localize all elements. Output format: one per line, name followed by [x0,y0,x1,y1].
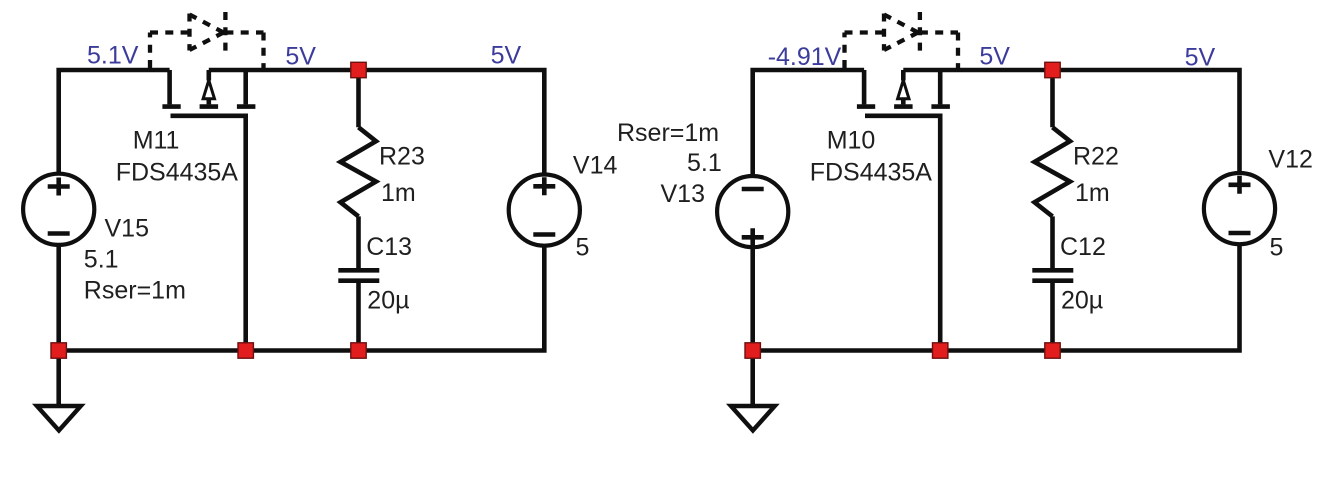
capacitor C12 [1032,270,1073,350]
svg-text:5V: 5V [979,42,1010,70]
svg-text:20µ: 20µ [1061,287,1103,315]
svg-text:R22: R22 [1073,143,1119,171]
body diode of M10 (dashed) [845,12,959,68]
wire top-left from V15 to M11 source [59,70,170,174]
node bottom at C13 [351,343,366,358]
voltage source V14 [509,175,580,246]
wire top mid from M10 drain to V12 [903,70,1239,173]
voltage source V15 [23,174,94,245]
resistor R23 [341,70,377,268]
voltage source V13 (reversed) [717,176,788,247]
svg-text:FDS4435A: FDS4435A [810,159,933,187]
node bottom at V15/ground [51,343,66,358]
wire ground stem right [750,351,755,407]
node top at R22 [1045,62,1060,77]
svg-text:5.1V: 5.1V [87,42,139,70]
wire bottom rail right circuit and V12 riser [753,244,1240,350]
svg-text:20µ: 20µ [367,287,409,315]
svg-text:5.1: 5.1 [84,246,119,274]
ground symbol left [37,406,81,431]
transistor M11 solid body [162,70,255,107]
wire M10 gate to bottom rail [865,116,940,351]
svg-text:-4.91V: -4.91V [768,43,842,71]
wire bottom rail left circuit and V14 riser [59,246,545,351]
voltage source V12 [1204,173,1275,244]
ground symbol right [731,406,775,431]
svg-text:5V: 5V [491,41,522,69]
svg-text:5V: 5V [285,42,316,70]
svg-text:V14: V14 [573,152,618,180]
node bottom at V13/ground [745,343,760,358]
resistor R22 [1035,70,1071,268]
svg-text:5: 5 [1270,233,1284,261]
transistor M10 solid body [857,70,950,107]
svg-text:C13: C13 [366,233,412,261]
svg-text:C12: C12 [1060,233,1106,261]
svg-text:M10: M10 [827,127,876,155]
capacitor C13 [338,270,379,350]
wire top-left from V13 to M10 source [753,70,864,176]
svg-text:V13: V13 [661,180,705,208]
svg-text:V15: V15 [105,215,149,243]
body diode of M11 (dashed) [150,12,264,68]
svg-text:V12: V12 [1268,146,1312,174]
wire V13 bottom [750,247,755,350]
wire M11 gate to bottom rail [171,116,246,351]
wire top mid from M11 drain to V14 [209,70,545,175]
wire V15 bottom [56,245,61,351]
svg-text:R23: R23 [379,143,425,171]
node bottom at C12 [1045,343,1060,358]
svg-text:M11: M11 [133,127,180,155]
wire ground stem [56,351,61,407]
svg-text:1m: 1m [381,179,416,207]
svg-text:FDS4435A: FDS4435A [116,159,239,187]
svg-text:5: 5 [576,233,590,261]
svg-text:1m: 1m [1075,179,1110,207]
svg-text:5.1: 5.1 [687,149,722,177]
node bottom at M10 gate [933,343,948,358]
svg-text:Rser=1m: Rser=1m [84,277,186,305]
node top at R23 [351,62,366,77]
svg-text:5V: 5V [1185,44,1216,72]
node bottom at M11 gate [238,343,253,358]
svg-text:Rser=1m: Rser=1m [617,119,719,147]
